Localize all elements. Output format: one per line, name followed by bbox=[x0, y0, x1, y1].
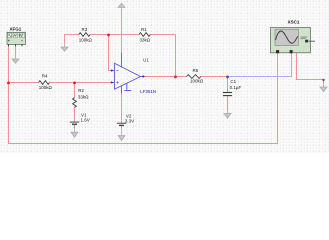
svg-text:R5: R5 bbox=[193, 68, 199, 73]
svg-text:XFG1: XFG1 bbox=[10, 27, 22, 32]
svg-text:33kΩ: 33kΩ bbox=[140, 38, 151, 43]
svg-text:R4: R4 bbox=[42, 73, 48, 78]
svg-text:R3: R3 bbox=[82, 27, 88, 32]
svg-text:100kΩ: 100kΩ bbox=[39, 85, 53, 90]
svg-text:33kΩ: 33kΩ bbox=[78, 94, 89, 99]
svg-text:100kΩ: 100kΩ bbox=[190, 79, 204, 84]
svg-text:LF351N: LF351N bbox=[140, 89, 156, 94]
svg-text:XSC1: XSC1 bbox=[288, 20, 300, 25]
svg-text:1.6V: 1.6V bbox=[81, 117, 90, 122]
svg-text:R1: R1 bbox=[141, 27, 147, 32]
svg-text:U1: U1 bbox=[143, 57, 149, 62]
svg-text:100kΩ: 100kΩ bbox=[79, 38, 93, 43]
svg-text:3.3V: 3.3V bbox=[125, 119, 134, 124]
svg-text:R2: R2 bbox=[78, 88, 84, 93]
svg-text:0.1µF: 0.1µF bbox=[230, 85, 242, 90]
svg-text:C1: C1 bbox=[230, 79, 236, 84]
